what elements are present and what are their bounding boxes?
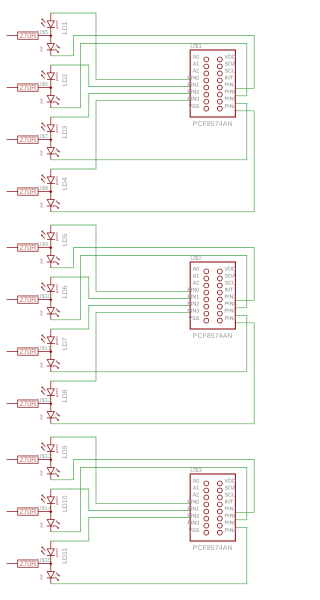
svg-text:U$11: U$11 [37, 345, 50, 352]
svg-text:270R: 270R [19, 187, 36, 196]
svg-text:U$1: U$1 [190, 43, 202, 50]
wire LD6 bottom to U$2 PIN6 [51, 255, 247, 319]
svg-text:270R: 270R [19, 455, 36, 464]
svg-text:270R: 270R [19, 399, 36, 408]
wire LD8 top to U$2 PIN3 [51, 312, 190, 381]
svg-text:PCF8574AN: PCF8574AN [193, 121, 233, 128]
svg-text:U$13: U$13 [37, 453, 51, 460]
svg-text:U$2: U$2 [190, 255, 202, 262]
svg-text:A0: A0 [193, 267, 200, 273]
wire LD11 top to U$3 PIN2 [51, 517, 190, 541]
wire LD2 bottom to U$1 PIN6 [51, 43, 247, 107]
svg-text:U$5: U$5 [37, 29, 48, 36]
svg-text:270R: 270R [19, 295, 36, 304]
svg-text:270R: 270R [19, 347, 36, 356]
LED LD8 red [47, 404, 60, 424]
wire LD9 top to U$3 PIN0 [51, 437, 190, 503]
LED LD10 red [47, 512, 60, 532]
svg-text:red: red [40, 99, 44, 104]
wire LD5 bottom to U$2 PIN7 [51, 248, 254, 301]
svg-text:PIN4: PIN4 [225, 528, 237, 534]
wire LD9 bottom to U$3 PIN7 [51, 460, 254, 513]
wire LD3 bottom to U$1 PIN5 [51, 103, 247, 160]
svg-text:VSS: VSS [189, 316, 200, 322]
svg-text:red: red [40, 259, 44, 264]
svg-text:A1: A1 [193, 62, 200, 68]
svg-text:U$3: U$3 [190, 467, 202, 474]
svg-text:270R: 270R [19, 507, 36, 516]
wire LD1 top to U$1 PIN0 [51, 13, 190, 79]
wire LD4 bottom to U$1 PIN4 [51, 111, 254, 212]
svg-text:red: red [40, 471, 44, 476]
svg-text:PIN0: PIN0 [187, 288, 199, 294]
junction node LD2 mid [50, 86, 53, 89]
resistor U$11 270R [7, 348, 51, 355]
LED LD2 red [47, 88, 60, 108]
svg-text:LD4: LD4 [62, 177, 69, 190]
svg-text:PIN6: PIN6 [225, 514, 237, 520]
svg-text:green: green [55, 284, 59, 293]
svg-text:INT: INT [225, 288, 234, 294]
LED LD11 red [47, 564, 60, 584]
junction node LD5 mid [50, 246, 53, 249]
svg-text:270R: 270R [19, 559, 36, 568]
svg-text:A0: A0 [193, 55, 200, 61]
resistor U$10 270R [7, 296, 51, 303]
svg-text:PIN6: PIN6 [225, 302, 237, 308]
svg-text:LD3: LD3 [62, 125, 69, 138]
LED LD11 green [41, 541, 55, 564]
resistor U$15 270R [7, 560, 51, 567]
wire LD11 bottom to U$3 PIN5 [51, 527, 247, 584]
svg-text:PIN2: PIN2 [187, 514, 199, 520]
svg-text:SDA: SDA [225, 486, 236, 492]
svg-text:LD9: LD9 [62, 445, 69, 458]
svg-text:red: red [40, 575, 44, 580]
svg-text:SDA: SDA [225, 274, 236, 280]
svg-text:red: red [40, 151, 44, 156]
LED LD2 green [41, 65, 55, 88]
svg-text:U$12: U$12 [37, 397, 51, 404]
svg-text:U$9: U$9 [37, 241, 48, 248]
svg-text:VDD: VDD [225, 479, 236, 485]
junction node LD7 mid [50, 350, 53, 353]
svg-text:red: red [40, 523, 44, 528]
svg-text:PIN0: PIN0 [187, 500, 199, 506]
svg-text:PIN1: PIN1 [187, 83, 199, 89]
svg-text:U$6: U$6 [37, 81, 48, 88]
svg-text:SCL: SCL [225, 69, 236, 75]
svg-text:PIN7: PIN7 [225, 295, 237, 301]
svg-text:LD8: LD8 [62, 389, 69, 402]
LED LD10 green [41, 489, 55, 512]
svg-text:PIN3: PIN3 [187, 309, 199, 315]
junction node LD11 mid [50, 562, 53, 565]
svg-text:green: green [55, 232, 59, 241]
wire LD2 top to U$1 PIN1 [51, 65, 190, 86]
LED LD6 red [47, 300, 60, 320]
LED LD1 green [41, 13, 55, 36]
op-amp-style IC U$2 PCF8574AN (I2C port expander) [190, 262, 235, 329]
junction node LD8 mid [50, 402, 53, 405]
svg-text:U$15: U$15 [37, 557, 51, 564]
svg-text:PIN5: PIN5 [225, 521, 237, 527]
svg-text:U$10: U$10 [37, 293, 51, 300]
junction node LD4 mid [50, 190, 53, 193]
wire LD10 top to U$3 PIN1 [51, 489, 190, 510]
svg-text:LD1: LD1 [62, 21, 69, 34]
svg-text:red: red [40, 311, 44, 316]
svg-text:A2: A2 [193, 493, 200, 499]
svg-text:U$7: U$7 [37, 133, 48, 140]
svg-text:red: red [40, 203, 44, 208]
svg-text:LD6: LD6 [62, 285, 69, 298]
svg-text:LD5: LD5 [62, 233, 69, 246]
svg-text:PCF8574AN: PCF8574AN [193, 545, 233, 552]
resistor U$9 270R [7, 244, 51, 251]
svg-text:green: green [55, 176, 59, 185]
wire LD3 top to U$1 PIN2 [51, 93, 190, 117]
svg-text:SDA: SDA [225, 62, 236, 68]
LED LD3 red [47, 140, 60, 160]
LED LD4 green [41, 169, 55, 192]
svg-text:PIN1: PIN1 [187, 295, 199, 301]
svg-text:PIN3: PIN3 [187, 521, 199, 527]
svg-text:PIN5: PIN5 [225, 309, 237, 315]
svg-text:SCL: SCL [225, 281, 236, 287]
resistor U$5 270R [7, 32, 51, 39]
svg-text:green: green [55, 444, 59, 453]
wire LD5 top to U$2 PIN0 [51, 225, 190, 291]
LED LD8 green [41, 381, 55, 404]
junction node LD10 mid [50, 510, 53, 513]
svg-text:PIN2: PIN2 [187, 90, 199, 96]
LED LD3 green [41, 117, 55, 140]
svg-text:270R: 270R [19, 31, 36, 40]
wire LD8 bottom to U$2 PIN4 [51, 323, 254, 424]
svg-text:INT: INT [225, 76, 234, 82]
svg-text:LD7: LD7 [62, 337, 69, 350]
wire LD7 bottom to U$2 PIN5 [51, 315, 247, 372]
svg-text:PIN2: PIN2 [187, 302, 199, 308]
LED LD1 red [47, 36, 60, 56]
wire LD7 top to U$2 PIN2 [51, 305, 190, 329]
op-amp-style IC U$1 PCF8574AN (I2C port expander) [190, 50, 235, 117]
svg-text:red: red [40, 363, 44, 368]
svg-text:VDD: VDD [225, 55, 236, 61]
junction node LD3 mid [50, 138, 53, 141]
svg-text:A1: A1 [193, 274, 200, 280]
junction node LD9 mid [50, 458, 53, 461]
svg-text:270R: 270R [19, 243, 36, 252]
svg-text:green: green [55, 72, 59, 81]
svg-text:PIN5: PIN5 [225, 97, 237, 103]
resistor U$12 270R [7, 400, 51, 407]
svg-text:A1: A1 [193, 486, 200, 492]
svg-text:A2: A2 [193, 281, 200, 287]
svg-text:LD10: LD10 [62, 495, 69, 512]
wire LD1 bottom to U$1 PIN7 [51, 36, 254, 89]
LED LD5 green [41, 225, 55, 248]
svg-text:green: green [55, 20, 59, 29]
svg-text:PIN1: PIN1 [187, 507, 199, 513]
svg-text:PIN3: PIN3 [187, 97, 199, 103]
LED LD7 red [47, 352, 60, 372]
LED LD9 green [41, 437, 55, 460]
svg-text:A0: A0 [193, 479, 200, 485]
svg-text:PIN6: PIN6 [225, 90, 237, 96]
svg-text:PIN7: PIN7 [225, 83, 237, 89]
svg-text:VDD: VDD [225, 267, 236, 273]
LED LD6 green [41, 277, 55, 300]
svg-text:red: red [40, 47, 44, 52]
LED LD7 green [41, 329, 55, 352]
svg-text:U$8: U$8 [37, 185, 48, 192]
svg-text:PIN7: PIN7 [225, 507, 237, 513]
svg-text:green: green [55, 336, 59, 345]
svg-text:LD2: LD2 [62, 73, 69, 86]
svg-text:LD11: LD11 [62, 548, 69, 564]
svg-text:green: green [55, 548, 59, 557]
junction node LD1 mid [50, 34, 53, 37]
svg-text:PIN4: PIN4 [225, 316, 237, 322]
resistor U$6 270R [7, 84, 51, 91]
LED LD9 red [47, 460, 60, 480]
svg-text:INT: INT [225, 500, 234, 506]
svg-text:SCL: SCL [225, 493, 236, 499]
svg-text:VSS: VSS [189, 528, 200, 534]
svg-text:PCF8574AN: PCF8574AN [193, 333, 233, 340]
svg-text:green: green [55, 388, 59, 397]
resistor U$13 270R [7, 456, 51, 463]
resistor U$8 270R [7, 188, 51, 195]
svg-text:PIN0: PIN0 [187, 76, 199, 82]
op-amp-style IC U$3 PCF8574AN (I2C port expander) [190, 474, 235, 541]
junction node LD6 mid [50, 298, 53, 301]
svg-text:VSS: VSS [189, 104, 200, 110]
svg-text:A2: A2 [193, 69, 200, 75]
resistor U$7 270R [7, 136, 51, 143]
svg-text:PIN4: PIN4 [225, 104, 237, 110]
svg-text:red: red [40, 415, 44, 420]
wire LD10 bottom to U$3 PIN6 [51, 467, 247, 531]
resistor U$14 270R [7, 508, 51, 515]
wire LD6 top to U$2 PIN1 [51, 277, 190, 298]
wire LD4 top to U$1 PIN3 [51, 100, 190, 169]
LED LD4 red [47, 192, 60, 212]
svg-text:270R: 270R [19, 135, 36, 144]
LED LD5 red [47, 248, 60, 268]
svg-text:270R: 270R [19, 83, 36, 92]
svg-text:green: green [55, 496, 59, 505]
svg-text:green: green [55, 124, 59, 133]
